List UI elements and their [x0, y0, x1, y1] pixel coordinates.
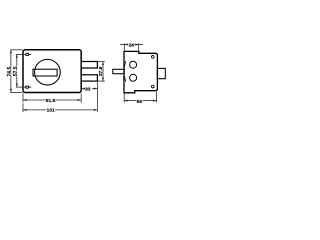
svg-text:74.5: 74.5: [7, 67, 13, 77]
dimension 74.5 (vertical, far left): [10, 50, 22, 93]
bolt prong 1 (upper): [81, 62, 97, 69]
knob circle: [35, 59, 61, 85]
staple flare top: [124, 61, 126, 69]
staple flare bottom: [124, 74, 126, 82]
keeper right tab: [157, 68, 165, 78]
svg-text:101: 101: [47, 108, 55, 114]
svg-text:33: 33: [85, 87, 91, 93]
dimension 56 (keeper bottom): [124, 92, 156, 103]
keeper screw bottom-right: [151, 85, 154, 88]
svg-text:24: 24: [129, 43, 135, 49]
keeper body (side view): [124, 51, 157, 92]
keeper left staple tab: [113, 69, 124, 73]
screw hole top-left: [26, 53, 32, 55]
svg-text:91.5: 91.5: [46, 98, 56, 104]
bolt prong 2 (lower): [81, 75, 97, 81]
svg-text:37.8: 37.8: [98, 66, 104, 76]
dimension 91.5 (body length): [23, 93, 81, 102]
thumbturn bar: [33, 69, 57, 76]
screw hole bottom-left: [26, 86, 32, 88]
keeper screw top-right: [151, 55, 154, 58]
dimension 37.8 (vertical, right of prongs): [98, 62, 105, 82]
dimension 101 (total length): [23, 82, 97, 112]
dimension 33 (prong length): [81, 88, 97, 90]
dimension 57.5 (vertical, inner left): [16, 54, 26, 87]
keeper hole 1: [130, 61, 137, 68]
keeper hole 2: [130, 74, 137, 81]
lock body (front view): [23, 50, 81, 93]
svg-text:57.5: 57.5: [13, 66, 19, 76]
svg-text:56: 56: [137, 99, 143, 105]
dimension 24 (keeper top): [120, 43, 143, 50]
